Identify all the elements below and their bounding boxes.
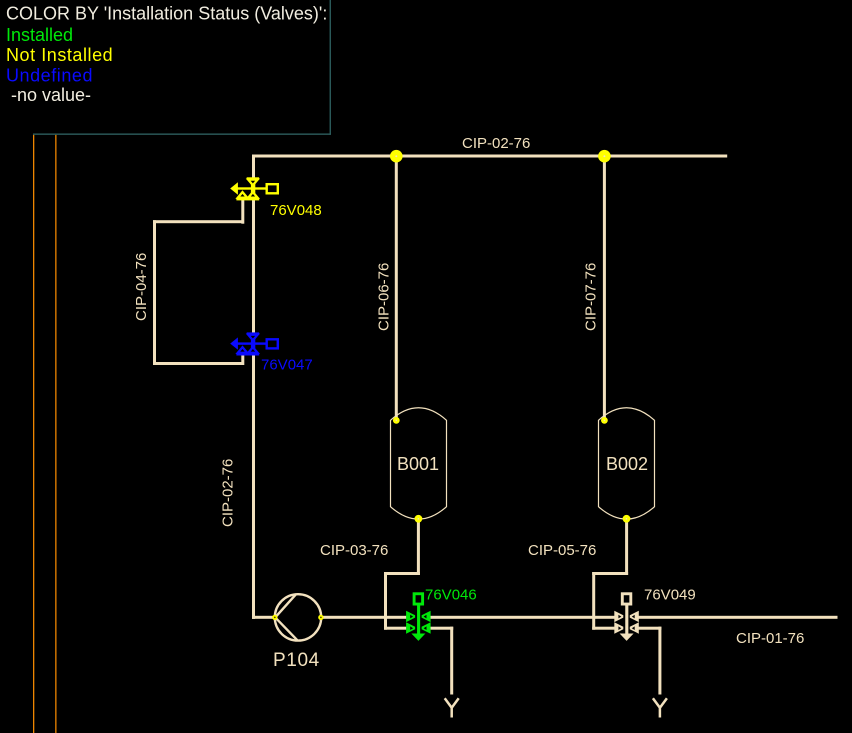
frame border line right: [55, 135, 56, 733]
svg-text:B001: B001: [397, 454, 439, 474]
svg-text:CIP-02-76: CIP-02-76: [220, 459, 237, 527]
wire V10 B002 outlet vertical: [625, 519, 628, 575]
svg-text:-no value-: -no value-: [11, 85, 91, 105]
valve 76V048 (yellow, not installed): [230, 177, 278, 200]
frame border line left: [33, 135, 34, 733]
node junction dot top right: [598, 150, 611, 163]
node B002 outlet dot: [623, 515, 631, 523]
wire V1 left main vertical CIP-02-76: [252, 155, 255, 619]
wire H6 B001 outlet horizontal: [384, 572, 420, 575]
wire V3 CIP-04-76 left vertical: [153, 220, 156, 365]
wire V4 stub below valve 76V047: [241, 355, 244, 365]
wire H1 top main CIP-02-76: [252, 155, 727, 158]
wire H3 CIP-04-76 lower horizontal: [153, 362, 244, 365]
svg-text:Installed: Installed: [6, 25, 73, 45]
svg-text:Undefined: Undefined: [6, 66, 93, 86]
valve 76V047 (blue, undefined): [230, 332, 278, 355]
wire H8 B002 outlet horizontal: [592, 572, 628, 575]
svg-text:76V049: 76V049: [644, 587, 696, 604]
wire V6 CIP-07-76 vertical: [603, 155, 606, 423]
vessel B002: [599, 408, 655, 519]
wire V12 drop to arrow right: [658, 627, 661, 695]
wire V2 stub below valve 76V048: [241, 200, 244, 224]
wire V7 B001 outlet vertical: [417, 519, 420, 575]
wire H5 main CIP-01-76: [319, 616, 838, 619]
svg-text:COLOR BY 'Installation Status: COLOR BY 'Installation Status (Valves)':: [6, 4, 327, 24]
svg-text:CIP-01-76: CIP-01-76: [736, 630, 804, 647]
svg-text:76V046: 76V046: [425, 587, 477, 604]
node B002 inlet dot: [601, 417, 608, 424]
node junction dot top left: [390, 150, 403, 163]
wire H9 lower branch right: [592, 627, 661, 630]
svg-text:CIP-04-76: CIP-04-76: [133, 253, 150, 321]
svg-text:P104: P104: [273, 650, 320, 671]
svg-text:B002: B002: [606, 454, 648, 474]
svg-text:CIP-03-76: CIP-03-76: [320, 542, 388, 559]
wire V8 drop to lower branch left: [384, 572, 387, 630]
wire V11 drop to lower branch right: [592, 572, 595, 630]
vessel B001: [391, 408, 447, 519]
node B001 inlet dot: [393, 417, 400, 424]
wire H7 lower branch left: [384, 627, 453, 630]
svg-text:76V048: 76V048: [270, 202, 322, 219]
wire H4 pump inlet: [252, 616, 276, 619]
wire H2 CIP-04-76 upper horizontal: [153, 220, 244, 223]
node pump inlet dot: [272, 615, 277, 620]
svg-text:Not Installed: Not Installed: [6, 45, 113, 65]
valve 76V049 (wheat): [614, 594, 639, 641]
valve 76V046 (green, installed): [406, 594, 431, 641]
node pump outlet dot: [318, 615, 323, 620]
svg-text:CIP-06-76: CIP-06-76: [376, 263, 393, 331]
svg-text:CIP-07-76: CIP-07-76: [583, 263, 600, 331]
legend box border: [33, 0, 331, 135]
flow arrow bottom right: [653, 698, 667, 717]
pump P104: [275, 594, 321, 640]
flow arrow bottom left: [445, 698, 459, 717]
svg-text:CIP-05-76: CIP-05-76: [528, 542, 596, 559]
svg-text:76V047: 76V047: [261, 357, 313, 374]
node B001 outlet dot: [415, 515, 423, 523]
wire V5 CIP-06-76 vertical: [395, 155, 398, 423]
pipes (wheat): [153, 155, 838, 695]
svg-text:CIP-02-76: CIP-02-76: [462, 135, 530, 152]
wire V9 drop to arrow left: [450, 627, 453, 695]
